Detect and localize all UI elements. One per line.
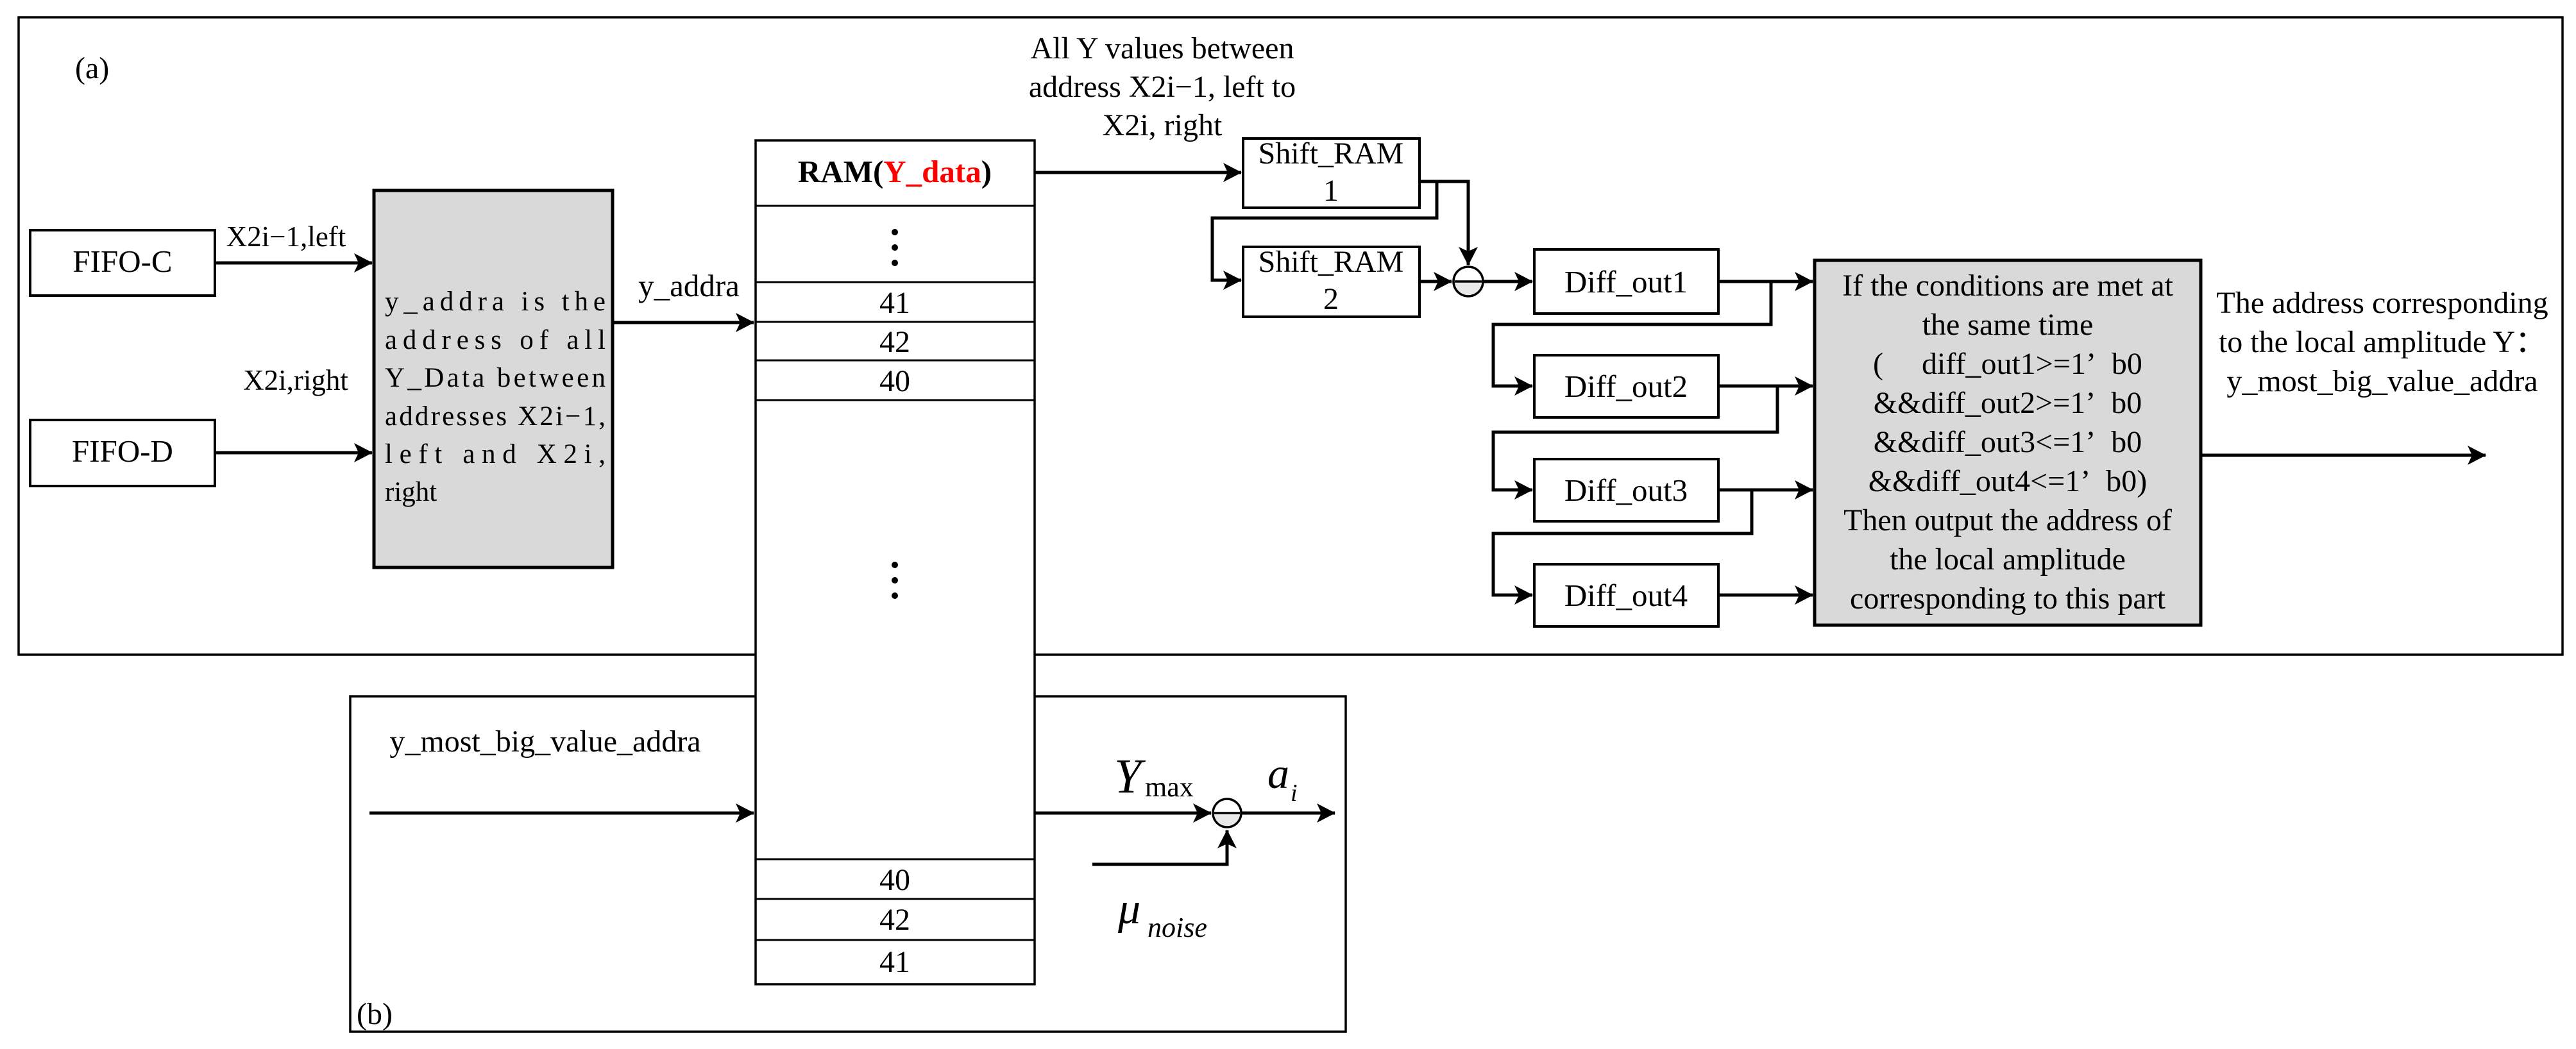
svg-text:a: a [1267, 749, 1289, 798]
svg-text:40: 40 [879, 863, 910, 897]
svg-text:y_most_big_value_addra: y_most_big_value_addra [2226, 364, 2538, 398]
svg-text:Y: Y [1114, 750, 1146, 803]
svg-text:noise: noise [1148, 912, 1207, 943]
subtractor circle B [1213, 799, 1241, 827]
Diff_out4 [1534, 564, 1718, 626]
wire Shift_RAM1 loop back to Shift_RAM2 [1212, 181, 1437, 280]
svg-text:&&diff_out4<=1’ b0): &&diff_out4<=1’ b0) [1868, 464, 2148, 498]
svg-text:μ: μ [1117, 884, 1140, 934]
wire Shift_RAM2 to subtractor [1419, 280, 1452, 283]
wire subtractor B out [1241, 812, 1335, 815]
svg-text:2: 2 [1323, 282, 1339, 316]
Shift_RAM 2 [1243, 245, 1419, 317]
svg-text:to the local amplitude Y：: to the local amplitude Y： [2219, 325, 2546, 359]
svg-text:FIFO-C: FIFO-C [72, 244, 172, 279]
svg-text:Diff_out2: Diff_out2 [1564, 369, 1688, 404]
svg-text:FIFO-D: FIFO-D [72, 433, 173, 469]
wire branch to Diff_out4 [1493, 490, 1752, 595]
svg-text:&&diff_out2>=1’ b0: &&diff_out2>=1’ b0 [1874, 386, 2142, 420]
svg-text:the same time: the same time [1922, 308, 2094, 342]
svg-text:&&diff_out3<=1’ b0: &&diff_out3<=1’ b0 [1874, 425, 2142, 459]
svg-text:If the conditions are met at: If the conditions are met at [1842, 269, 2173, 303]
FIFO-C [30, 230, 215, 296]
svg-text:address X2i−1, left to: address X2i−1, left to [1029, 70, 1296, 104]
svg-text:41: 41 [879, 286, 910, 320]
box (b) [350, 696, 1346, 1032]
wire FIFO-C to y_addra block [215, 262, 372, 265]
svg-text:y_most_big_value_addra: y_most_big_value_addra [389, 725, 700, 759]
svg-text:41: 41 [879, 945, 910, 979]
condition box [1815, 260, 2201, 625]
dots upper [892, 229, 898, 266]
svg-text:(b): (b) [357, 997, 393, 1031]
wire FIFO-D to y_addra block [215, 451, 372, 455]
svg-text:X2i,right: X2i,right [243, 364, 348, 396]
svg-text:Diff_out4: Diff_out4 [1564, 578, 1688, 613]
svg-text:y_addra: y_addra [638, 268, 740, 303]
svg-text:Shift_RAM: Shift_RAM [1258, 137, 1404, 171]
svg-text:40: 40 [879, 364, 910, 398]
dots lower [892, 562, 898, 599]
svg-text:i: i [1291, 780, 1298, 807]
Diff_out2 [1534, 355, 1718, 417]
svg-text:right: right [385, 477, 437, 507]
wire Diff_out4 to condition box [1718, 594, 1813, 597]
svg-text:left and X2i,: left and X2i, [385, 439, 606, 469]
svg-text:max: max [1145, 771, 1194, 803]
svg-text:RAM(Y_data): RAM(Y_data) [798, 154, 992, 189]
wire branch to Diff_out3 [1493, 386, 1777, 490]
svg-text:X2i−1,left: X2i−1,left [226, 221, 346, 253]
wire y_addra to RAM [613, 321, 754, 324]
wire branch to Diff_out2 [1493, 281, 1771, 386]
svg-text:( diff_out1>=1’ b0: ( diff_out1>=1’ b0 [1873, 347, 2142, 381]
wire Diff_out1 to condition box [1718, 280, 1813, 283]
subtractor circle A [1453, 267, 1483, 296]
FIFO-D [30, 420, 215, 486]
top note text [1029, 31, 1296, 142]
svg-text:Diff_out1: Diff_out1 [1564, 264, 1688, 299]
svg-text:42: 42 [879, 903, 910, 937]
output note text [2216, 286, 2548, 398]
Diff_out1 [1534, 249, 1718, 314]
svg-text:Then output the address of: Then output the address of [1843, 503, 2172, 537]
wire condition box output [2202, 454, 2486, 457]
Diff_out3 [1534, 459, 1718, 521]
wire subtractor A to Diff_out1 [1483, 280, 1532, 283]
Shift_RAM 1 [1243, 137, 1419, 208]
wire Diff_out2 to condition box [1718, 385, 1813, 388]
wire RAM to Shift_RAM 1 [1035, 171, 1241, 174]
svg-text:corresponding to this part: corresponding to this part [1850, 582, 2166, 616]
wire Shift_RAM1 out down to subtractor [1419, 181, 1468, 265]
svg-text:Diff_out3: Diff_out3 [1564, 473, 1688, 508]
wire Diff_out3 to condition box [1718, 489, 1813, 492]
wire y_most_big_value_addra into RAM [369, 812, 754, 815]
svg-text:The address corresponding: The address corresponding [2216, 286, 2548, 320]
svg-text:(a): (a) [75, 51, 109, 85]
svg-text:42: 42 [879, 325, 910, 359]
svg-text:X2i, right: X2i, right [1103, 108, 1223, 142]
y_addra description block [374, 190, 613, 567]
RAM table [756, 140, 1035, 984]
svg-text:1: 1 [1323, 174, 1339, 208]
svg-text:All Y values between: All Y values between [1031, 31, 1294, 65]
svg-text:Shift_RAM: Shift_RAM [1258, 245, 1404, 279]
svg-text:the local amplitude: the local amplitude [1890, 542, 2126, 576]
wire RAM to subtractor B [1035, 812, 1211, 815]
wire mu noise up into subtractor B [1092, 830, 1227, 864]
outer box (a) [19, 17, 2563, 655]
